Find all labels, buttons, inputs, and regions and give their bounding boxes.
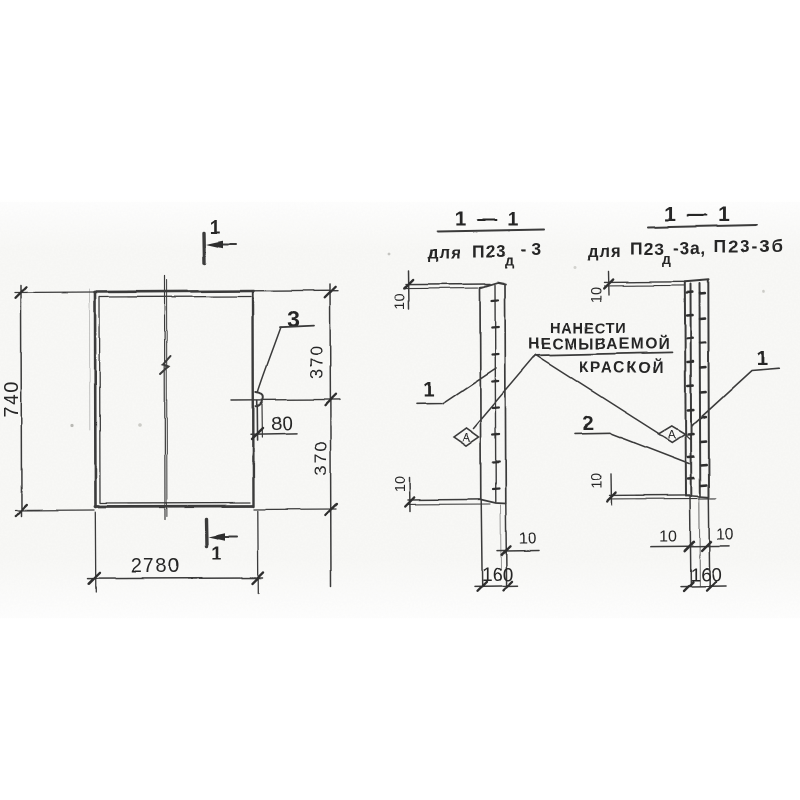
dim 740 tick top xyxy=(16,287,27,298)
S2 dim 10-10 line xyxy=(651,545,730,548)
panel outline outer xyxy=(95,291,255,507)
dim 2780 tick right xyxy=(253,573,264,584)
S1 tail left line xyxy=(481,500,482,587)
section mark bottom: arrow xyxy=(208,533,237,541)
svg-text:370: 370 xyxy=(307,343,327,378)
S2 bottom dim 10 ticks xyxy=(607,493,616,502)
svg-text:д: д xyxy=(662,251,671,267)
detail 3 label underline xyxy=(280,326,314,328)
S2 bottom dim 10 ext upper xyxy=(610,494,690,497)
svg-text:3: 3 xyxy=(287,306,300,332)
svg-text:2: 2 xyxy=(582,412,593,435)
svg-text:А: А xyxy=(668,427,676,441)
S2 outer right line xyxy=(707,280,710,497)
S2 inner line 1 xyxy=(690,284,693,496)
note underline xyxy=(535,352,673,355)
dim 370 tick top xyxy=(325,286,336,297)
S1 title underline xyxy=(438,230,544,232)
scan band tint xyxy=(0,198,800,622)
svg-text:80: 80 xyxy=(271,413,293,435)
svg-text:1: 1 xyxy=(756,347,767,370)
svg-text:для: для xyxy=(428,244,462,262)
section mark top: arrow xyxy=(206,241,236,249)
S1 panel top edge xyxy=(480,283,506,289)
dim 2780 extension left xyxy=(94,512,97,592)
S2 bottom edge xyxy=(686,496,709,498)
svg-text:НЕСМЫВАЕМОЙ: НЕСМЫВАЕМОЙ xyxy=(529,335,671,353)
svg-text:-3: -3 xyxy=(521,239,547,259)
S2 dim 160 line xyxy=(681,585,726,588)
S1 diamond A xyxy=(454,428,479,446)
S1 tail ghost line xyxy=(500,505,503,570)
svg-text:160: 160 xyxy=(690,565,722,586)
dim 370 tick bottom xyxy=(325,504,336,515)
svg-text:10: 10 xyxy=(659,529,677,546)
dim 370 tick middle xyxy=(325,394,336,405)
svg-text:740: 740 xyxy=(1,380,23,418)
S1 tail right line xyxy=(505,504,508,587)
svg-text:НАНЕСТИ: НАНЕСТИ xyxy=(550,321,626,337)
S2 inner line 2 paint ticks xyxy=(700,294,707,486)
svg-text:1 — 1: 1 — 1 xyxy=(664,203,733,226)
section mark top: thick stroke xyxy=(202,233,206,263)
svg-text:А: А xyxy=(462,431,470,445)
faint ghost line left xyxy=(89,289,91,430)
svg-text:1: 1 xyxy=(423,380,434,402)
S2 inner line 2 xyxy=(699,284,702,497)
S2 bottom dim 10 line xyxy=(610,474,613,506)
S2 tail left line xyxy=(689,497,692,586)
S1 top dim 10 ticks xyxy=(404,280,413,289)
panel outline inner double lines xyxy=(99,297,251,504)
svg-text:д: д xyxy=(505,253,514,269)
svg-text:П23: П23 xyxy=(630,239,665,259)
scan speckles xyxy=(70,253,764,428)
svg-text:для: для xyxy=(588,243,622,261)
svg-text:10: 10 xyxy=(590,473,606,489)
S1 panel bottom edge xyxy=(481,500,506,504)
dim 80 tick xyxy=(252,428,263,439)
svg-text:КРАСКОЙ: КРАСКОЙ xyxy=(578,359,665,377)
svg-text:10: 10 xyxy=(589,287,605,303)
S2 top dim 10 ticks xyxy=(604,280,613,289)
dim 740 extension top xyxy=(15,291,94,294)
dim 2780 extension right xyxy=(257,511,260,593)
svg-text:2780: 2780 xyxy=(130,556,181,578)
dim 80 line xyxy=(251,432,297,435)
detail 3 bulge xyxy=(256,392,263,406)
S2 dim 160 ticks xyxy=(684,582,716,591)
S1 strip right line xyxy=(504,284,507,504)
dim 740 line xyxy=(20,285,23,516)
S2 outer left line xyxy=(685,282,686,496)
svg-text:1: 1 xyxy=(211,544,222,565)
note leader to S1 diamond xyxy=(473,355,536,429)
svg-text:160: 160 xyxy=(482,565,514,586)
S2 bottom dim 10 ext lower xyxy=(610,497,717,500)
S2 label 1 leader xyxy=(692,368,780,425)
detail 3 leader xyxy=(258,327,281,393)
S1 top dim 10 ext short xyxy=(406,287,478,290)
dim 370 line xyxy=(330,284,331,586)
S2 top dim 10 ext long xyxy=(604,281,685,284)
dim 2780 line xyxy=(88,577,263,580)
S2 top edge xyxy=(685,280,709,282)
dim 370 extension top xyxy=(253,289,338,292)
centerline break mark xyxy=(161,356,171,374)
svg-text:10: 10 xyxy=(393,294,409,310)
S2 inner line 1 paint ticks xyxy=(687,293,694,479)
S1 panel left face xyxy=(479,288,482,500)
svg-text:П23: П23 xyxy=(472,241,507,261)
S1 dim 160 line xyxy=(475,585,518,588)
S2 label 2 leader xyxy=(575,433,690,464)
S2 tail right line xyxy=(708,498,711,586)
S1 bottom dim 10 ext lower xyxy=(408,503,490,505)
S2 diamond A xyxy=(659,426,691,443)
S1 bottom dim 10 ext upper xyxy=(408,498,481,501)
S2 top dim 10 ext short xyxy=(604,284,685,287)
svg-text:1 — 1: 1 — 1 xyxy=(455,209,521,231)
svg-text:370: 370 xyxy=(311,440,331,475)
dim 80 extension vertical xyxy=(256,400,258,440)
dim 740 tick bottom xyxy=(16,505,27,516)
S1 dim 10 horizontal line xyxy=(497,549,539,552)
S1 bottom dim 10 ticks xyxy=(405,497,414,506)
S1 top dim 10 line xyxy=(408,271,411,309)
dim 370 extension middle xyxy=(231,398,340,401)
S2 dim 10-10 ticks xyxy=(685,542,711,551)
svg-text:10: 10 xyxy=(519,530,537,547)
S1 bottom dim 10 line xyxy=(409,478,412,512)
dim 2780 tick left xyxy=(89,573,100,584)
S1 top dim 10 ext long xyxy=(406,283,490,286)
S1 dim 160 ticks xyxy=(478,581,513,590)
section mark bottom: thick stroke xyxy=(204,519,208,546)
S1 dim 10 horizontal ticks xyxy=(502,546,511,555)
svg-text:10: 10 xyxy=(393,476,409,492)
svg-text:10: 10 xyxy=(716,527,734,544)
S1 strip left line xyxy=(494,285,497,502)
S2 tail middle line xyxy=(698,497,701,586)
S1 label 1 leader xyxy=(417,368,496,404)
note leader to S2 diamond xyxy=(536,355,659,434)
S2 top dim 10 line xyxy=(607,272,610,296)
dim 740 extension bottom xyxy=(15,509,94,512)
svg-text:П23-3б: П23-3б xyxy=(714,236,784,256)
svg-text:1: 1 xyxy=(210,218,221,239)
svg-text:-3а,: -3а, xyxy=(673,238,707,258)
S1 strip paint ticks xyxy=(492,300,500,489)
S2 title underline xyxy=(648,225,757,228)
dim 370 extension bottom xyxy=(254,508,336,511)
centerline xyxy=(165,276,167,519)
